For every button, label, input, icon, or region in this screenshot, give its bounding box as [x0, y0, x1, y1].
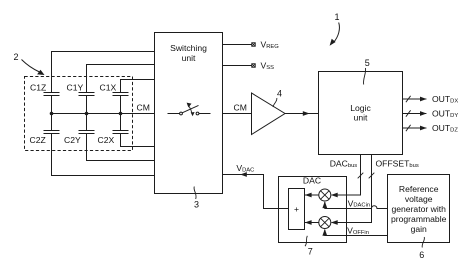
label VDAC: [236, 163, 254, 173]
terminal VREG: [223, 44, 252, 46]
junction node C1Z/C2Z: [50, 112, 54, 116]
wire C1Y top to switching unit: [87, 65, 155, 93]
output OUTDX: [403, 96, 427, 102]
sensor dashed box 2: [25, 77, 133, 151]
svg-text:OFFSETbus: OFFSETbus: [376, 159, 419, 169]
svg-text:programmable: programmable: [391, 214, 447, 224]
svg-text:2: 2: [14, 52, 19, 62]
label 4: [277, 88, 282, 98]
svg-text:CM: CM: [234, 102, 247, 112]
capacitor C1Y: [79, 93, 95, 96]
logic unit box 5: [319, 72, 403, 155]
svg-text:VDACin: VDACin: [348, 198, 371, 208]
svg-text:C2X: C2X: [98, 135, 115, 145]
wire M1 to adder: [305, 193, 319, 198]
svg-text:OUTDY: OUTDY: [432, 108, 458, 118]
wire cap columns middle segments: [52, 96, 121, 131]
wire C2Y bottom to switching unit: [87, 134, 155, 161]
label C1X: [100, 83, 117, 93]
label VSS: [261, 61, 275, 71]
leader squiggle for 7: [305, 236, 307, 246]
wire VDACin: [322, 201, 387, 208]
switch symbol: [168, 103, 211, 117]
leader arrow for 1: [334, 23, 340, 43]
label OFFSETbus: [376, 159, 419, 169]
multiplier M2: [319, 217, 331, 229]
label 2: [14, 52, 19, 62]
svg-text:C2Y: C2Y: [64, 135, 81, 145]
svg-text:C1X: C1X: [100, 83, 117, 93]
multiplier M1: [319, 189, 331, 201]
wire amplifier to logic unit: [285, 113, 319, 115]
label C2X: [98, 135, 115, 145]
label 1: [334, 12, 339, 22]
capacitor C2Z: [44, 131, 60, 134]
wire VDAC adder to switching unit: [223, 172, 289, 208]
label C1Z: [30, 83, 46, 93]
capacitor C2Y: [79, 131, 95, 134]
capacitor C1X: [113, 93, 129, 96]
wire M2 to adder: [305, 220, 319, 225]
junction node C1X/C2X: [119, 112, 123, 116]
svg-text:Switching: Switching: [170, 43, 207, 53]
DAC box 7: [279, 177, 347, 243]
label 3: [194, 200, 199, 210]
capacitor C1Z: [44, 93, 60, 96]
svg-text:OUTDX: OUTDX: [432, 94, 458, 104]
terminal VSS: [223, 65, 252, 67]
wire C1X top to switching unit: [121, 80, 155, 93]
svg-text:7: 7: [308, 247, 313, 257]
label 6: [419, 250, 424, 260]
bus OFFSETbus wire: [331, 155, 374, 225]
svg-text:C1Y: C1Y: [67, 83, 84, 93]
svg-text:DACbus: DACbus: [330, 159, 358, 169]
output OUTDY: [403, 110, 427, 116]
svg-text:CM: CM: [137, 102, 150, 112]
svg-text:unit: unit: [182, 53, 196, 63]
label CM right: [234, 102, 247, 112]
junction node C1Y/C2Y: [85, 112, 89, 116]
wire C2Z bottom to switching unit: [52, 134, 155, 176]
output OUTDZ: [403, 125, 427, 131]
svg-text:Reference: Reference: [399, 184, 439, 194]
label VOFFin: [347, 226, 369, 236]
svg-text:6: 6: [419, 250, 424, 260]
svg-text:VDAC: VDAC: [236, 163, 254, 173]
svg-text:C2Z: C2Z: [30, 135, 46, 145]
svg-text:+: +: [294, 204, 299, 214]
svg-text:voltage: voltage: [405, 194, 433, 204]
svg-text:1: 1: [334, 12, 339, 22]
svg-text:5: 5: [365, 58, 370, 68]
leader squiggle for 4: [273, 98, 277, 107]
wire C1Z top to switching unit: [52, 52, 155, 93]
svg-text:DAC: DAC: [303, 176, 321, 186]
label C2Z: [30, 135, 46, 145]
leader squiggle for 6: [422, 237, 424, 248]
label VDACin: [348, 198, 371, 208]
wire VOFFin: [322, 229, 387, 236]
label 7: [308, 247, 313, 257]
label C2Y: [64, 135, 81, 145]
wire C2X bottom to switching unit: [121, 134, 155, 147]
leader squiggle for 3: [194, 187, 196, 200]
svg-text:VREG: VREG: [261, 40, 280, 50]
svg-text:3: 3: [194, 200, 199, 210]
label CM left: [137, 102, 150, 112]
label 5: [365, 58, 370, 68]
svg-text:VSS: VSS: [261, 61, 275, 71]
label DACbus: [330, 159, 358, 169]
svg-text:generator with: generator with: [391, 204, 446, 214]
svg-text:4: 4: [277, 88, 282, 98]
reference voltage generator box 6: [388, 175, 450, 243]
switching unit box 3: [155, 33, 223, 194]
svg-text:gain: gain: [411, 224, 427, 234]
wire CM to amplifier: [223, 113, 253, 115]
leader squiggle for 5: [364, 68, 366, 85]
leader arrow for 2: [22, 60, 40, 73]
label C1Y: [67, 83, 84, 93]
svg-text:VOFFin: VOFFin: [347, 226, 369, 236]
adder U+: [289, 189, 305, 230]
bus DACbus wire: [331, 155, 363, 198]
label VREG: [261, 40, 280, 50]
op-amp buffer 4: [252, 93, 286, 135]
svg-text:C1Z: C1Z: [30, 83, 46, 93]
wire CM common bus: [52, 113, 155, 115]
svg-text:OUTDZ: OUTDZ: [432, 123, 458, 133]
capacitor C2X: [113, 131, 129, 134]
svg-text:unit: unit: [354, 112, 368, 122]
